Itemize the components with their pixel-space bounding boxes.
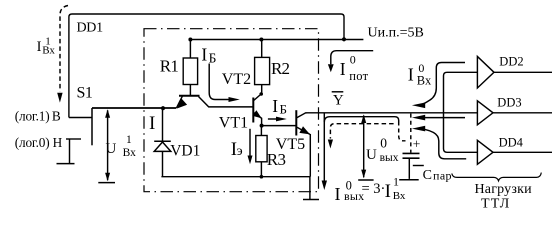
- svg-text:вых: вых: [380, 152, 399, 164]
- svg-text:Uи.п.=5В: Uи.п.=5В: [368, 25, 424, 40]
- svg-text:VT2: VT2: [222, 71, 251, 88]
- svg-text:(лог.0) Н: (лог.0) Н: [15, 135, 63, 150]
- svg-text:Вх: Вх: [42, 44, 55, 56]
- svg-text:DD4: DD4: [499, 135, 524, 149]
- svg-text:Вх: Вх: [123, 147, 137, 159]
- svg-text:1: 1: [126, 134, 132, 146]
- svg-text:э: э: [237, 144, 243, 159]
- svg-text:I: I: [149, 113, 155, 134]
- svg-text:I: I: [201, 45, 207, 65]
- svg-text:I: I: [272, 96, 278, 116]
- svg-text:Y: Y: [333, 92, 344, 108]
- svg-text:I: I: [335, 184, 341, 204]
- svg-text:(лог.1) В: (лог.1) В: [15, 108, 61, 123]
- svg-text:пот: пот: [349, 69, 368, 83]
- svg-text:1: 1: [393, 175, 399, 189]
- svg-text:Вх: Вх: [417, 73, 432, 87]
- svg-text:I: I: [385, 181, 391, 202]
- svg-text:U: U: [106, 141, 117, 157]
- svg-text:Б: Б: [209, 51, 217, 66]
- svg-text:R2: R2: [271, 59, 290, 78]
- svg-text:I: I: [340, 59, 346, 79]
- svg-text:Нагрузки: Нагрузки: [475, 182, 533, 197]
- svg-text:+: +: [413, 136, 421, 151]
- svg-text:U: U: [366, 147, 377, 163]
- svg-text:ТТЛ: ТТЛ: [481, 196, 511, 211]
- svg-text:DD2: DD2: [499, 54, 523, 68]
- svg-text:I: I: [37, 39, 42, 55]
- svg-text:I: I: [408, 64, 414, 84]
- svg-text:S1: S1: [77, 85, 93, 102]
- svg-text:VT5: VT5: [276, 136, 305, 153]
- svg-text:VT1: VT1: [219, 114, 248, 131]
- svg-text:Б: Б: [280, 102, 287, 117]
- svg-text:0: 0: [380, 136, 387, 151]
- svg-text:= 3·: = 3·: [362, 181, 386, 197]
- svg-text:Вх: Вх: [393, 190, 406, 202]
- svg-text:DD3: DD3: [497, 96, 521, 110]
- svg-text:0: 0: [350, 52, 356, 66]
- svg-text:С: С: [423, 168, 432, 183]
- svg-text:R1: R1: [160, 56, 179, 75]
- svg-text:VD1: VD1: [170, 142, 200, 159]
- svg-text:DD1: DD1: [77, 21, 104, 36]
- svg-text:пар: пар: [433, 168, 452, 182]
